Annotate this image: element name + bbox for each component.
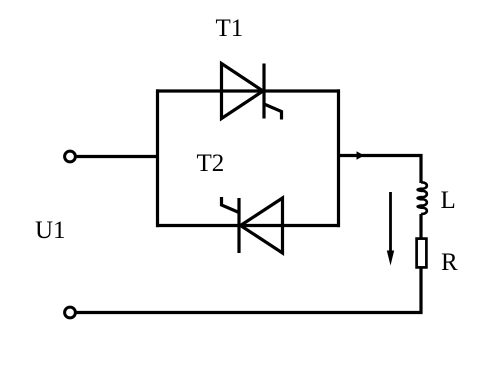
inductor L — [418, 182, 427, 214]
svg-text:T2: T2 — [197, 150, 225, 177]
wire: right vertical rail — [337, 89, 340, 227]
terminal: top input — [65, 151, 76, 162]
thyristor T2 — [222, 197, 283, 253]
wire: bottom branch — [156, 224, 340, 227]
thyristor T1 — [222, 64, 282, 120]
wire: top input to left rail — [77, 155, 159, 158]
terminal: bottom input — [65, 307, 76, 318]
resistor R — [417, 239, 427, 268]
wire: inductor to resistor — [419, 214, 422, 239]
svg-text:R: R — [441, 249, 458, 276]
arrowhead on output wire — [357, 151, 365, 160]
wire: top branch — [156, 89, 340, 92]
svg-text:L: L — [441, 187, 456, 214]
wire: left vertical rail — [156, 89, 159, 227]
svg-text:T1: T1 — [216, 15, 244, 42]
wire: output to load — [339, 156, 422, 184]
wire: resistor to bottom rail — [77, 268, 421, 313]
svg-text:U1: U1 — [35, 217, 66, 244]
current direction arrow — [389, 192, 392, 253]
